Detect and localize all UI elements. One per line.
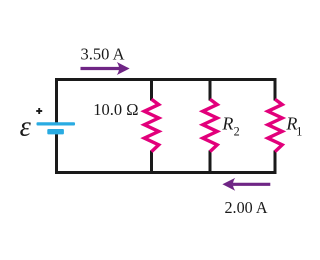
svg-text:10.0 Ω: 10.0 Ω [93, 100, 138, 119]
svg-text:1: 1 [296, 125, 302, 139]
wire: bottom bus (node b) [55, 171, 277, 174]
wire: R1 branch lower segment (right edge) [274, 151, 277, 175]
wire: R2 branch upper segment [209, 78, 212, 101]
svg-text:2.00 A: 2.00 A [225, 198, 269, 217]
resistor R2 (zigzag) [203, 99, 217, 151]
wire: 10.0-ohm branch upper segment [150, 78, 153, 101]
wire: R1 branch upper segment (right edge) [274, 78, 277, 101]
wire: top bus (node a) [55, 78, 277, 81]
current arrow 2.00 A (bottom, pointing left) [222, 178, 270, 191]
svg-text:ε: ε [20, 111, 32, 142]
svg-text:R: R [221, 114, 233, 134]
wire: left branch upper segment (to battery + plate) [55, 78, 58, 124]
svg-text:3.50 A: 3.50 A [81, 44, 126, 63]
resistor R1 (zigzag) [268, 99, 282, 151]
resistor 10.0 ohm (zigzag) [144, 99, 158, 151]
battery EMF source: + plate (long bar) [37, 122, 76, 125]
svg-text:2: 2 [234, 125, 240, 139]
battery polarity label + [36, 108, 42, 114]
wire: R2 branch lower segment [209, 151, 212, 175]
current arrow 3.50 A (top, pointing right) [81, 62, 130, 75]
wire: left branch lower segment (from battery - plate) [55, 134, 58, 175]
battery EMF source: - plate (short thick bar) [47, 129, 64, 134]
wire: 10.0-ohm branch lower segment [150, 151, 153, 175]
